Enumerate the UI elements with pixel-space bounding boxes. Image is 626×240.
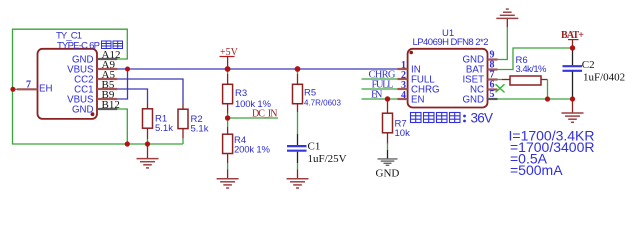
wire EH to loop: [13, 88, 18, 90]
svg-text:GND: GND: [72, 105, 94, 116]
marker dot inside connector: [91, 112, 95, 116]
svg-text:10k: 10k: [395, 128, 411, 139]
svg-text:1uF/0402: 1uF/0402: [583, 72, 625, 84]
net CHRG: [362, 78, 398, 80]
svg-text:7: 7: [26, 80, 31, 91]
flag BAT+: [561, 30, 584, 48]
resistor R2: [178, 105, 209, 145]
wire R6 down to GND rail: [547, 80, 549, 100]
ground under R4: [217, 179, 239, 188]
resistor R7: [383, 99, 411, 159]
svg-text:5.1k: 5.1k: [155, 123, 173, 134]
no-connect X on pin 6: [496, 84, 505, 92]
svg-text:GND: GND: [462, 94, 484, 105]
svg-text:36V: 36V: [471, 111, 494, 126]
svg-text:B12: B12: [102, 99, 120, 111]
net DC_IN: [228, 109, 278, 120]
net FULL: [362, 88, 398, 90]
CJK 立贴: [102, 41, 123, 49]
connector TY_C1 box: [38, 49, 98, 119]
svg-text:R3: R3: [235, 88, 247, 99]
wire pin9 GND to top ground: [498, 27, 508, 60]
resistor R5: [293, 69, 342, 134]
wire B12 GND down: [117, 109, 127, 144]
svg-text:3.4k/1%: 3.4k/1%: [516, 64, 548, 75]
pin1 marker: [409, 51, 413, 55]
svg-text:1uF/25V: 1uF/25V: [308, 153, 347, 165]
svg-text:GND: GND: [376, 168, 400, 180]
wire +5V rail: [117, 68, 398, 70]
svg-text:EN: EN: [411, 95, 424, 106]
wire pin8 BAT to BAT+: [498, 48, 573, 70]
svg-text:=500mA: =500mA: [510, 162, 563, 178]
resistor R1: [143, 104, 174, 144]
flag +5V: [220, 47, 239, 69]
svg-text:200k 1%: 200k 1%: [234, 145, 271, 156]
svg-text:LP4069H DFN8 2*2: LP4069H DFN8 2*2: [413, 37, 489, 48]
svg-text:4.7R/0603: 4.7R/0603: [304, 98, 341, 107]
ground GND under R7: [378, 159, 398, 165]
IC left pin stubs: [398, 69, 408, 99]
ground under R1: [137, 144, 159, 168]
wire GND loop around TYPE-C from A12 to bottom rail: [13, 29, 184, 144]
resistor R6: [498, 55, 548, 85]
ground under C1: [287, 179, 309, 188]
ground bottom right: [562, 99, 584, 122]
IC right pin stubs: [488, 60, 498, 100]
svg-text:DC_IN: DC_IN: [252, 109, 278, 120]
svg-text:C1: C1: [308, 140, 321, 152]
svg-text:EH: EH: [39, 83, 52, 94]
svg-text:C2: C2: [582, 59, 595, 71]
ground top (inverted): [496, 9, 518, 18]
IC U1 box: [408, 49, 488, 108]
wire CC1 B5 to R1: [117, 89, 148, 104]
svg-text:4: 4: [401, 90, 406, 101]
resistor R3: [223, 69, 272, 118]
capacitor C1: [287, 134, 347, 179]
svg-text:R5: R5: [304, 88, 316, 99]
wire pin5 GND rail: [498, 98, 573, 100]
resistor R4: [223, 118, 271, 179]
wire VBUS A9-B9 vertical: [117, 69, 128, 99]
svg-text:5: 5: [490, 89, 495, 100]
svg-text:5.1k: 5.1k: [191, 123, 209, 134]
svg-text:EN: EN: [371, 90, 383, 101]
net EN: [362, 98, 398, 100]
TY_C1 pin stubs: [17, 59, 117, 109]
svg-text:TYPE-C 6P: TYPE-C 6P: [57, 40, 100, 51]
wire CC2 A5 to R2: [117, 79, 183, 105]
capacitor C2: [563, 48, 626, 99]
CJK 最高耐压：36V: [411, 113, 461, 123]
